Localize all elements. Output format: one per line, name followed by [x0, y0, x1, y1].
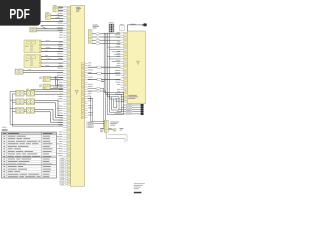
connector C8 inline lower: [104, 120, 108, 132]
label J2 code: [46, 11, 49, 14]
node junction dot A: [55, 77, 56, 78]
node junction dot B: [57, 79, 58, 80]
wire pin stubs left of C1: [63, 7, 67, 185]
connector C6 face view: [120, 25, 124, 30]
wire junction vertical at J5: [55, 77, 57, 86]
connector C2 PCM pin column (right side): [81, 63, 84, 119]
wire bundle vertical from C5: [104, 33, 114, 99]
connector J4 sensor pair: [15, 69, 23, 74]
wire E1 to junction box top: [127, 24, 142, 26]
svg-text:PDF: PDF: [9, 5, 30, 21]
wire harness left side to C1: [23, 8, 63, 89]
label C4 name: [93, 25, 100, 29]
ignition coil T6: [26, 107, 35, 113]
wire junction vertical at J6: [57, 80, 59, 89]
label C8 wire tags: [87, 122, 94, 128]
ignition coil T1: [16, 90, 25, 96]
label injector feed: [26, 88, 29, 91]
connector C1 PCM pin column (left, 76 pins): [67, 6, 71, 185]
legend table: [2, 127, 57, 178]
ignition coil T3: [16, 99, 25, 105]
connector J6: [43, 84, 50, 90]
sensor E1 (black): [143, 23, 146, 26]
wire pin stubs right of C2: [85, 63, 88, 117]
connector J3 sensor pair: [30, 28, 37, 33]
wire shielded pair C2 to ring G1: [88, 87, 113, 129]
label G1 right: [120, 127, 124, 130]
label wire gauge marks: [28, 7, 66, 88]
connector J1 sensor plug: [53, 6, 59, 12]
ignition coil T5: [16, 107, 25, 113]
label wire codes right of C2: [88, 63, 93, 116]
label T18: [101, 80, 105, 83]
terminal ring G1: [113, 128, 116, 131]
wire coil feed links: [10, 92, 26, 112]
module U2 junction box body: [127, 31, 145, 104]
connector C4 inline 4-pin: [88, 29, 92, 43]
ignition coil T2: [26, 90, 35, 96]
wire diagonal under PDF badge: [41, 26, 46, 29]
label PCM / ENGINE CONTROL MODULE: [76, 7, 81, 12]
connector J5: [43, 76, 50, 82]
wire pair C2 down to C8: [88, 96, 105, 123]
label wire codes left of C1: [57, 6, 66, 185]
ignition coil T4: [26, 99, 35, 105]
wire pin stubs left of C3: [121, 33, 124, 102]
label title block page number: [134, 183, 145, 193]
label J6 code: [39, 84, 42, 87]
wire injector feed above coils: [31, 89, 64, 91]
op-amp U1 PCM engine control module body: [71, 5, 85, 186]
wire group C3 upper pins to bundle: [107, 47, 120, 61]
label C8 name: [110, 122, 119, 126]
label wire codes left of C3: [115, 32, 120, 101]
label junction box name: [128, 95, 138, 99]
label J1 code: [53, 4, 56, 7]
wire group C8 exits: [106, 132, 127, 142]
label G1 left: [100, 127, 104, 130]
PDF badge: [0, 0, 41, 26]
connector C7 inline splices: [88, 66, 121, 80]
wire nested routing loops: [107, 92, 123, 114]
connector J2 sensor plug: [45, 14, 51, 20]
label E1 wire code: [130, 23, 136, 26]
wire group to sensors E2-E6 below junction box: [115, 104, 144, 115]
wire twisted-pair group C4 to C3 with shield ovals: [92, 33, 121, 45]
wire coil ground bus: [10, 92, 63, 127]
node marker triangle (central module): [75, 90, 78, 93]
relay K1: [24, 40, 41, 53]
connector C3 junction box pin column: [124, 32, 127, 102]
label J5 code: [39, 76, 42, 79]
wire coil cascade to C1: [35, 92, 63, 122]
connector C5 multi-pin header (grid): [109, 22, 114, 33]
relay K2: [24, 55, 41, 68]
node marker triangle (junction box): [137, 61, 140, 64]
wire group C3 lower pins to loops: [121, 94, 124, 101]
